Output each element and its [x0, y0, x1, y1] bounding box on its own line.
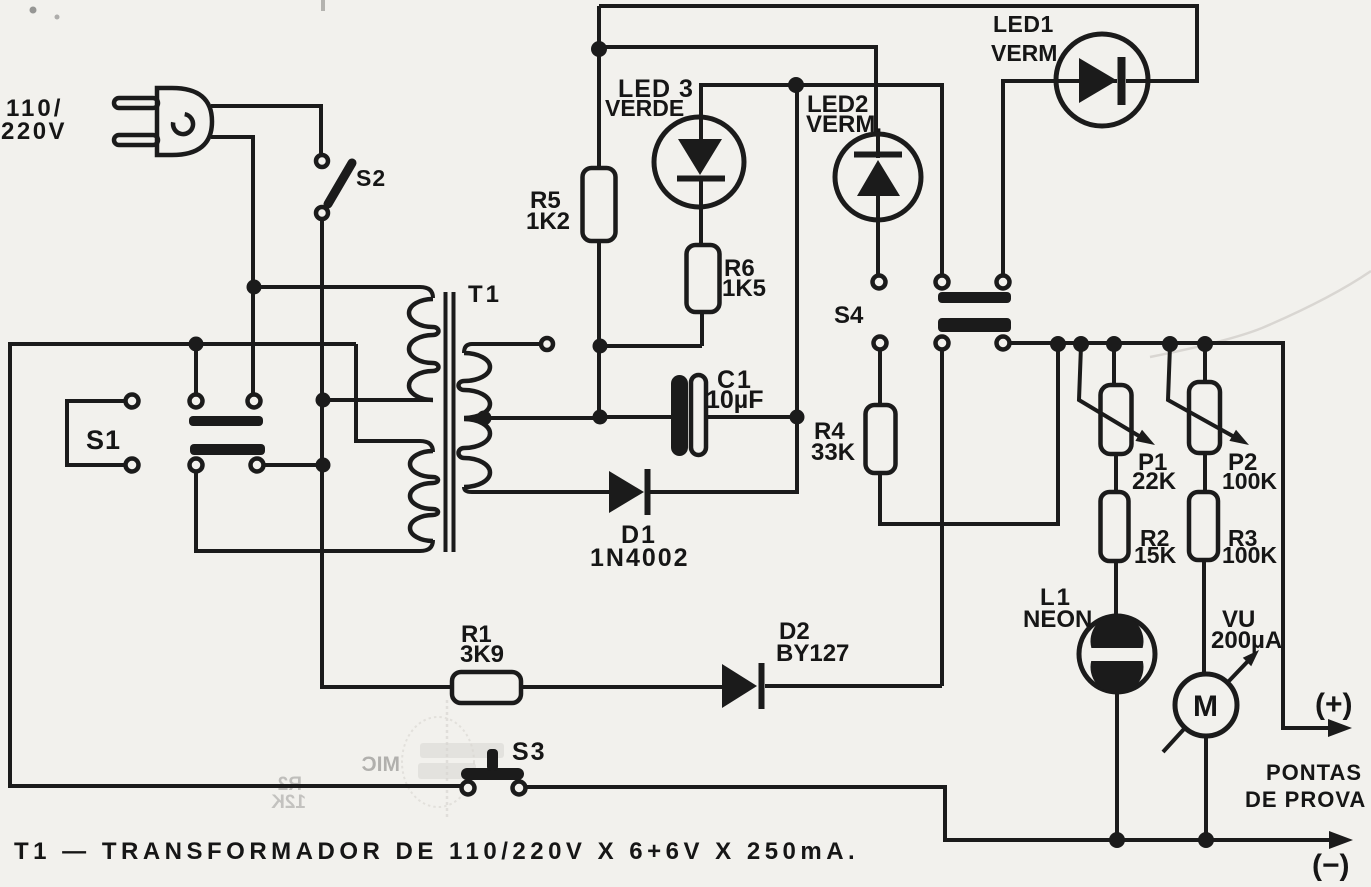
svg-text:15K: 15K	[1134, 542, 1177, 568]
top rail from R5 line to LED1	[599, 6, 1197, 81]
LED3 VERDE	[605, 75, 744, 207]
potentiometer P1 22K	[1079, 346, 1177, 495]
svg-text:200µA: 200µA	[1211, 627, 1282, 654]
switch S1 (110/220 selector)	[67, 395, 265, 472]
wire: S2 bottom down to R1 left lead	[322, 219, 452, 687]
switch S2	[316, 155, 386, 219]
ghost bleed-through artifacts near S3	[271, 700, 504, 820]
svg-text:S2: S2	[356, 165, 386, 191]
svg-text:PONTAS: PONTAS	[1266, 760, 1362, 785]
svg-text:T1 — TRANSFORMADOR DE 110/220: T1 — TRANSFORMADOR DE 110/220V X 6+6V X …	[14, 838, 859, 865]
wire: R4 bottom loop up to distribution rail	[880, 346, 1058, 524]
wire: S1 contact F to junction	[263, 463, 323, 467]
node: VU bottom rail junction	[1198, 832, 1214, 848]
wire: S4 left bottom to R4	[878, 350, 882, 405]
wire: plug bottom lead down to node	[211, 137, 253, 287]
neon lamp L1	[1023, 561, 1155, 840]
svg-text:S1: S1	[86, 425, 121, 455]
primary upper winding	[409, 299, 439, 400]
resistor R2 15K	[1101, 454, 1177, 568]
svg-text:100K: 100K	[1222, 468, 1277, 494]
node: C1 left junction	[593, 410, 608, 425]
wire: bottom rail from S3 to (-) output	[527, 787, 1333, 840]
svg-text:S3: S3	[512, 738, 547, 766]
node: LED3 line / D1 riser junction	[788, 77, 804, 93]
terminal arrow (+)	[1328, 719, 1352, 737]
potentiometer P2 100K	[1168, 346, 1277, 494]
LED2 VERM	[806, 91, 921, 275]
resistor R4 33K	[811, 405, 896, 473]
primary lower winding	[410, 451, 438, 541]
wire: plug top lead to S2	[211, 106, 321, 154]
svg-text:100K: 100K	[1222, 542, 1277, 568]
resistor R3 100K	[1189, 453, 1277, 568]
wire: secondary center tap to C1 line	[481, 416, 599, 420]
LED1 VERM	[991, 11, 1148, 126]
wire: R5 bottom to C1 node	[597, 241, 601, 417]
secondary upper winding	[459, 353, 490, 418]
resistor R5 1K2	[526, 168, 616, 241]
node: secondary center tap	[477, 411, 492, 426]
node: plug bottom / primary top junction	[247, 280, 262, 295]
AC plug 110/220V	[1, 88, 212, 155]
wire: LED3 bottom to R6	[699, 178, 703, 245]
svg-text:VERM.: VERM.	[806, 111, 882, 138]
wire: node down to S1 contact C	[251, 287, 255, 394]
wire: junction down to S1 contact B	[194, 344, 198, 394]
resistor R1 3K9	[452, 621, 521, 703]
svg-text:12K: 12K	[271, 792, 306, 813]
wire: left rail from 110/220 line down and along bottom to S3	[10, 344, 461, 786]
capacitor C1 10uF	[599, 366, 797, 456]
wire: D2 cathode to S4 middle column riser	[765, 684, 942, 688]
svg-text:1K2: 1K2	[526, 208, 570, 235]
svg-text:1N4002: 1N4002	[590, 544, 690, 572]
svg-text:VERM.: VERM.	[991, 40, 1064, 66]
svg-text:3K9: 3K9	[460, 641, 504, 668]
svg-text:(+): (+)	[1315, 688, 1353, 721]
wire: LED3 top to S4 middle column	[701, 85, 942, 275]
wire: secondary bottom lead to D1	[464, 487, 609, 492]
core	[444, 292, 448, 552]
node: top rail / LED2 branch	[591, 41, 607, 57]
svg-text:VERDE: VERDE	[605, 95, 684, 121]
ghost scratch top-right	[1150, 271, 1371, 357]
wire: R6 bottom link	[600, 312, 702, 346]
svg-text:S4: S4	[834, 302, 864, 329]
wire: R5 top feed	[597, 6, 601, 168]
node: primary center tap junction on S2 line	[316, 393, 331, 408]
svg-text:NEON: NEON	[1023, 606, 1092, 633]
svg-text:MIC: MIC	[362, 753, 401, 776]
node: R5/R6 junction	[593, 339, 608, 354]
transformer T1	[409, 281, 502, 552]
node: junction on 344 line above S1 contact B	[189, 337, 204, 352]
svg-text:M: M	[1193, 690, 1218, 723]
wire: D1 cathode to C1 node corner up	[650, 85, 797, 492]
svg-text:10µF: 10µF	[706, 386, 763, 414]
wire: branch to LED2	[599, 47, 876, 134]
wire: 344 line corner down to lower primary top lead	[356, 344, 433, 452]
wire: S4 right bottom to distribution rail and (+) output	[1010, 343, 1332, 728]
meter VU 200uA	[1163, 560, 1282, 840]
push switch S3	[461, 738, 547, 795]
svg-text:BY127: BY127	[776, 640, 849, 667]
node: L1 bottom rail junction	[1109, 832, 1125, 848]
svg-text:22K: 22K	[1132, 468, 1177, 495]
terminal: secondary top tap (unconnected)	[541, 338, 553, 350]
svg-text:33K: 33K	[811, 439, 856, 466]
terminal arrow (-)	[1329, 831, 1353, 849]
wire: primary center tap	[323, 398, 433, 402]
svg-text:1K5: 1K5	[722, 275, 766, 302]
svg-text:DE PROVA: DE PROVA	[1245, 787, 1366, 812]
node: rail junctions	[1050, 336, 1066, 352]
switch S4	[834, 276, 1011, 350]
diode D2 BY127	[722, 618, 849, 709]
resistor R6 1K5	[687, 245, 767, 312]
diode D1 1N4002	[590, 469, 690, 572]
svg-text:220V: 220V	[1, 118, 67, 145]
svg-text:T1: T1	[468, 281, 502, 308]
wire: S4 middle bottom down to D2	[940, 350, 944, 686]
svg-text:(−): (−)	[1312, 849, 1350, 882]
secondary lower winding	[459, 419, 491, 487]
node: S1 contact F junction on S2 line	[316, 458, 331, 473]
ghost specks top-left	[30, 7, 37, 14]
wire: node to transformer primary top	[254, 287, 433, 298]
wire: LED1 left lead down to S4 right column	[1003, 81, 1056, 275]
svg-text:LED1: LED1	[993, 11, 1054, 37]
wire: secondary top lead to open terminal	[464, 344, 540, 353]
wire: R1 to D2	[521, 685, 722, 689]
wire: S1 contact E down and to primary bottom	[196, 472, 433, 551]
node: C1 right junction	[790, 410, 805, 425]
